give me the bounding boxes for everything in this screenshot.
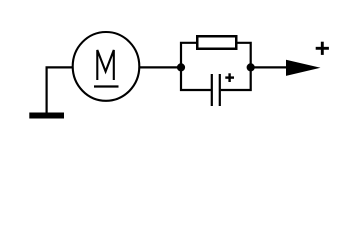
wire resistor branch left (riser and stub)	[181, 43, 198, 68]
capacitor	[212, 74, 220, 106]
wire capacitor branch left (drop and stub)	[181, 67, 211, 90]
ground	[29, 113, 64, 119]
wire capacitor branch right (stub and drop)	[221, 67, 251, 90]
wire node B to output arrow	[251, 66, 288, 68]
wire ground (horizontal and vertical)	[47, 67, 73, 112]
output arrow terminal	[286, 60, 321, 76]
node B junction dot	[247, 63, 255, 71]
capacitor polarity plus label	[225, 73, 234, 82]
wire motor to node A	[139, 66, 181, 68]
resistor	[197, 36, 236, 49]
motor M	[73, 32, 140, 101]
node A junction dot	[177, 63, 185, 71]
wire resistor branch right (stub and riser)	[236, 43, 251, 68]
output plus label	[316, 42, 329, 55]
